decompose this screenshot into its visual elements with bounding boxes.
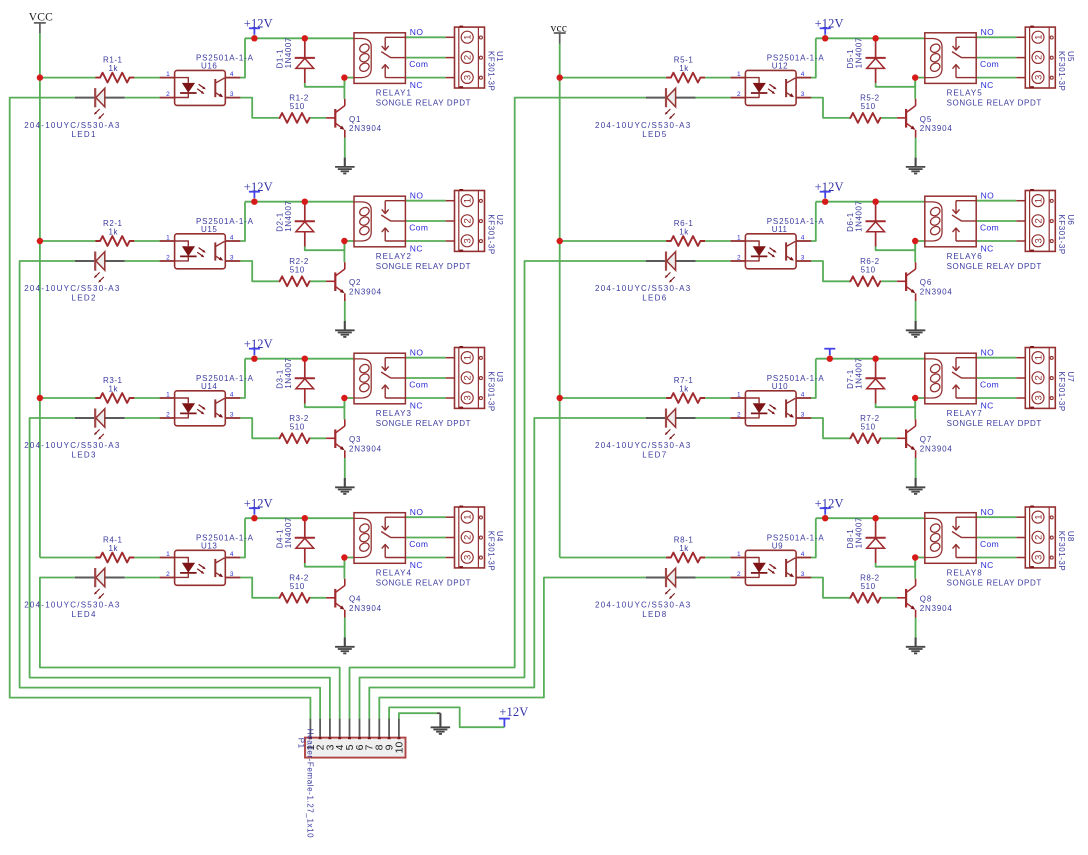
svg-text:LED1: LED1 xyxy=(72,130,97,139)
svg-text:1: 1 xyxy=(1033,35,1044,40)
svg-text:RELAY2: RELAY2 xyxy=(376,252,412,261)
svg-text:1k: 1k xyxy=(679,64,689,73)
svg-text:RELAY4: RELAY4 xyxy=(376,568,412,577)
svg-text:Q1: Q1 xyxy=(349,115,361,124)
svg-text:Com: Com xyxy=(409,59,428,69)
svg-text:1: 1 xyxy=(463,198,474,203)
svg-text:2: 2 xyxy=(1033,375,1044,380)
svg-text:KF301-3P: KF301-3P xyxy=(1057,51,1066,91)
svg-text:Com: Com xyxy=(980,379,999,389)
svg-text:U14: U14 xyxy=(201,382,217,391)
svg-text:NC: NC xyxy=(410,401,423,411)
svg-text:1N4007: 1N4007 xyxy=(855,357,864,388)
svg-text:Q8: Q8 xyxy=(920,595,932,604)
svg-text:Header-Female-1.27_1x10: Header-Female-1.27_1x10 xyxy=(305,729,314,838)
svg-text:1N4007: 1N4007 xyxy=(855,517,864,548)
svg-text:2N3904: 2N3904 xyxy=(349,124,382,133)
svg-text:1: 1 xyxy=(1033,514,1044,519)
svg-text:510: 510 xyxy=(861,102,876,111)
svg-text:KF301-3P: KF301-3P xyxy=(1057,214,1066,254)
svg-text:NO: NO xyxy=(410,27,424,37)
svg-text:1N4007: 1N4007 xyxy=(284,357,293,388)
svg-text:U15: U15 xyxy=(201,225,217,234)
svg-text:2: 2 xyxy=(463,218,474,223)
svg-text:NC: NC xyxy=(410,244,423,254)
svg-text:KF301-3P: KF301-3P xyxy=(486,531,495,571)
svg-text:NO: NO xyxy=(410,507,424,517)
svg-text:RELAY1: RELAY1 xyxy=(376,88,412,97)
svg-text:U3: U3 xyxy=(495,371,504,382)
svg-text:4: 4 xyxy=(801,235,805,242)
svg-text:Com: Com xyxy=(409,379,428,389)
svg-text:3: 3 xyxy=(463,238,474,243)
svg-text:U5: U5 xyxy=(1066,51,1075,62)
svg-text:SONGLE RELAY DPDT: SONGLE RELAY DPDT xyxy=(947,419,1042,428)
svg-text:204-10UYC/S530-A3: 204-10UYC/S530-A3 xyxy=(24,601,120,610)
svg-text:1N4007: 1N4007 xyxy=(855,200,864,231)
svg-text:4: 4 xyxy=(801,71,805,78)
svg-text:LED5: LED5 xyxy=(642,130,667,139)
svg-text:2: 2 xyxy=(166,412,170,419)
svg-text:1N4007: 1N4007 xyxy=(284,200,293,231)
svg-text:Q7: Q7 xyxy=(920,435,932,444)
svg-text:+12V: +12V xyxy=(815,496,844,510)
svg-text:NC: NC xyxy=(981,80,994,90)
svg-text:2: 2 xyxy=(1033,535,1044,540)
svg-text:204-10UYC/S530-A3: 204-10UYC/S530-A3 xyxy=(24,441,120,450)
svg-text:2N3904: 2N3904 xyxy=(920,124,953,133)
svg-text:U8: U8 xyxy=(1066,531,1075,542)
svg-text:2: 2 xyxy=(737,255,741,262)
svg-text:510: 510 xyxy=(861,422,876,431)
svg-text:2: 2 xyxy=(166,571,170,578)
svg-text:3: 3 xyxy=(230,255,234,262)
svg-text:1N4007: 1N4007 xyxy=(284,517,293,548)
svg-text:510: 510 xyxy=(290,582,305,591)
svg-text:Q3: Q3 xyxy=(349,435,361,444)
svg-text:U7: U7 xyxy=(1066,371,1075,382)
svg-text:NO: NO xyxy=(410,347,424,357)
svg-text:1: 1 xyxy=(1033,198,1044,203)
svg-text:RELAY7: RELAY7 xyxy=(947,409,983,418)
svg-text:1k: 1k xyxy=(109,385,119,394)
svg-text:2: 2 xyxy=(166,255,170,262)
svg-text:204-10UYC/S530-A3: 204-10UYC/S530-A3 xyxy=(595,121,691,130)
svg-text:U2: U2 xyxy=(495,214,504,225)
svg-text:SONGLE RELAY DPDT: SONGLE RELAY DPDT xyxy=(376,578,471,587)
svg-text:4: 4 xyxy=(801,551,805,558)
svg-text:204-10UYC/S530-A3: 204-10UYC/S530-A3 xyxy=(595,284,691,293)
svg-text:U13: U13 xyxy=(201,541,217,550)
svg-text:1: 1 xyxy=(737,235,741,242)
svg-text:1: 1 xyxy=(166,71,170,78)
svg-text:1N4007: 1N4007 xyxy=(855,37,864,68)
svg-text:U10: U10 xyxy=(772,382,788,391)
svg-text:KF301-3P: KF301-3P xyxy=(486,51,495,91)
svg-text:3: 3 xyxy=(1033,555,1044,560)
svg-text:510: 510 xyxy=(861,265,876,274)
svg-text:NC: NC xyxy=(410,80,423,90)
svg-text:RELAY5: RELAY5 xyxy=(947,88,983,97)
svg-text:RELAY6: RELAY6 xyxy=(947,252,983,261)
svg-text:1: 1 xyxy=(463,35,474,40)
svg-text:1: 1 xyxy=(166,392,170,399)
svg-text:1: 1 xyxy=(463,514,474,519)
svg-text:+12V: +12V xyxy=(815,17,844,31)
svg-text:LED4: LED4 xyxy=(72,610,97,619)
svg-text:2N3904: 2N3904 xyxy=(920,604,953,613)
svg-text:NC: NC xyxy=(410,560,423,570)
svg-text:2: 2 xyxy=(737,571,741,578)
svg-text:204-10UYC/S530-A3: 204-10UYC/S530-A3 xyxy=(595,601,691,610)
svg-text:1k: 1k xyxy=(109,544,119,553)
svg-text:1: 1 xyxy=(166,235,170,242)
svg-text:2: 2 xyxy=(1033,55,1044,60)
svg-text:+12V: +12V xyxy=(244,337,273,351)
svg-text:SONGLE RELAY DPDT: SONGLE RELAY DPDT xyxy=(947,98,1042,107)
svg-text:U12: U12 xyxy=(772,61,788,70)
svg-text:U4: U4 xyxy=(495,531,504,542)
svg-text:1k: 1k xyxy=(679,544,689,553)
svg-text:2N3904: 2N3904 xyxy=(349,604,382,613)
svg-text:Com: Com xyxy=(980,59,999,69)
svg-text:4: 4 xyxy=(230,71,234,78)
svg-text:NO: NO xyxy=(410,190,424,200)
svg-text:3: 3 xyxy=(801,412,805,419)
svg-text:+12V: +12V xyxy=(244,496,273,510)
svg-text:510: 510 xyxy=(290,102,305,111)
svg-text:2: 2 xyxy=(737,91,741,98)
svg-text:RELAY8: RELAY8 xyxy=(947,568,983,577)
svg-text:U1: U1 xyxy=(495,51,504,62)
svg-text:1: 1 xyxy=(463,355,474,360)
svg-text:KF301-3P: KF301-3P xyxy=(486,371,495,411)
svg-text:2: 2 xyxy=(463,535,474,540)
svg-text:2N3904: 2N3904 xyxy=(349,287,382,296)
svg-text:510: 510 xyxy=(861,582,876,591)
svg-text:3: 3 xyxy=(463,395,474,400)
svg-text:RELAY3: RELAY3 xyxy=(376,409,412,418)
svg-text:1k: 1k xyxy=(109,228,119,237)
svg-text:3: 3 xyxy=(1033,75,1044,80)
svg-text:3: 3 xyxy=(801,571,805,578)
svg-text:+12V: +12V xyxy=(815,180,844,194)
svg-text:3: 3 xyxy=(230,412,234,419)
svg-text:3: 3 xyxy=(463,555,474,560)
svg-text:SONGLE RELAY DPDT: SONGLE RELAY DPDT xyxy=(376,262,471,271)
svg-text:+12V: +12V xyxy=(499,705,528,719)
svg-text:2: 2 xyxy=(1033,218,1044,223)
svg-text:4: 4 xyxy=(230,551,234,558)
svg-text:SONGLE RELAY DPDT: SONGLE RELAY DPDT xyxy=(376,98,471,107)
svg-text:KF301-3P: KF301-3P xyxy=(1057,531,1066,571)
svg-text:2N3904: 2N3904 xyxy=(920,444,953,453)
svg-text:P1: P1 xyxy=(296,738,305,749)
svg-text:Q5: Q5 xyxy=(920,115,932,124)
svg-text:SONGLE RELAY DPDT: SONGLE RELAY DPDT xyxy=(947,578,1042,587)
svg-text:3: 3 xyxy=(1033,395,1044,400)
svg-text:2: 2 xyxy=(166,91,170,98)
svg-text:U9: U9 xyxy=(772,541,783,550)
svg-text:1: 1 xyxy=(166,551,170,558)
svg-text:KF301-3P: KF301-3P xyxy=(1057,371,1066,411)
svg-text:510: 510 xyxy=(290,422,305,431)
svg-text:3: 3 xyxy=(230,91,234,98)
svg-text:2: 2 xyxy=(463,375,474,380)
svg-text:LED3: LED3 xyxy=(72,451,97,460)
svg-text:Com: Com xyxy=(409,539,428,549)
svg-text:+12V: +12V xyxy=(244,17,273,31)
svg-text:3: 3 xyxy=(801,255,805,262)
svg-text:510: 510 xyxy=(290,265,305,274)
svg-text:3: 3 xyxy=(801,91,805,98)
svg-text:LED7: LED7 xyxy=(642,451,667,460)
svg-text:2N3904: 2N3904 xyxy=(920,287,953,296)
svg-text:LED8: LED8 xyxy=(642,610,667,619)
svg-text:NO: NO xyxy=(981,507,995,517)
svg-text:Com: Com xyxy=(980,222,999,232)
svg-text:10: 10 xyxy=(393,742,405,754)
svg-text:3: 3 xyxy=(463,75,474,80)
svg-text:LED6: LED6 xyxy=(642,294,667,303)
svg-text:4: 4 xyxy=(230,235,234,242)
svg-text:204-10UYC/S530-A3: 204-10UYC/S530-A3 xyxy=(595,441,691,450)
svg-text:1: 1 xyxy=(737,392,741,399)
svg-text:3: 3 xyxy=(1033,238,1044,243)
svg-text:4: 4 xyxy=(801,392,805,399)
svg-text:Com: Com xyxy=(409,222,428,232)
svg-text:NC: NC xyxy=(981,560,994,570)
svg-text:NC: NC xyxy=(981,401,994,411)
svg-text:SONGLE RELAY DPDT: SONGLE RELAY DPDT xyxy=(376,419,471,428)
svg-text:U16: U16 xyxy=(201,61,217,70)
svg-text:+12V: +12V xyxy=(244,180,273,194)
svg-text:Q4: Q4 xyxy=(349,595,361,604)
svg-text:NO: NO xyxy=(981,190,995,200)
svg-text:SONGLE RELAY DPDT: SONGLE RELAY DPDT xyxy=(947,262,1042,271)
svg-text:2: 2 xyxy=(463,55,474,60)
svg-text:2: 2 xyxy=(737,412,741,419)
svg-text:NO: NO xyxy=(981,27,995,37)
svg-text:1: 1 xyxy=(1033,355,1044,360)
svg-text:2N3904: 2N3904 xyxy=(349,444,382,453)
svg-text:U11: U11 xyxy=(772,225,788,234)
svg-text:204-10UYC/S530-A3: 204-10UYC/S530-A3 xyxy=(24,284,120,293)
svg-text:1: 1 xyxy=(737,71,741,78)
svg-text:4: 4 xyxy=(230,392,234,399)
svg-text:NO: NO xyxy=(981,347,995,357)
svg-text:VCC: VCC xyxy=(29,11,53,23)
svg-text:KF301-3P: KF301-3P xyxy=(486,214,495,254)
svg-text:1: 1 xyxy=(737,551,741,558)
svg-text:204-10UYC/S530-A3: 204-10UYC/S530-A3 xyxy=(24,121,120,130)
svg-text:LED2: LED2 xyxy=(72,294,97,303)
svg-text:1k: 1k xyxy=(109,64,119,73)
svg-text:Q6: Q6 xyxy=(920,278,932,287)
svg-text:3: 3 xyxy=(230,571,234,578)
svg-text:1k: 1k xyxy=(679,385,689,394)
svg-text:U6: U6 xyxy=(1066,214,1075,225)
svg-text:Q2: Q2 xyxy=(349,278,361,287)
svg-text:1k: 1k xyxy=(679,228,689,237)
svg-text:1N4007: 1N4007 xyxy=(284,37,293,68)
svg-text:NC: NC xyxy=(981,244,994,254)
svg-text:Com: Com xyxy=(980,539,999,549)
